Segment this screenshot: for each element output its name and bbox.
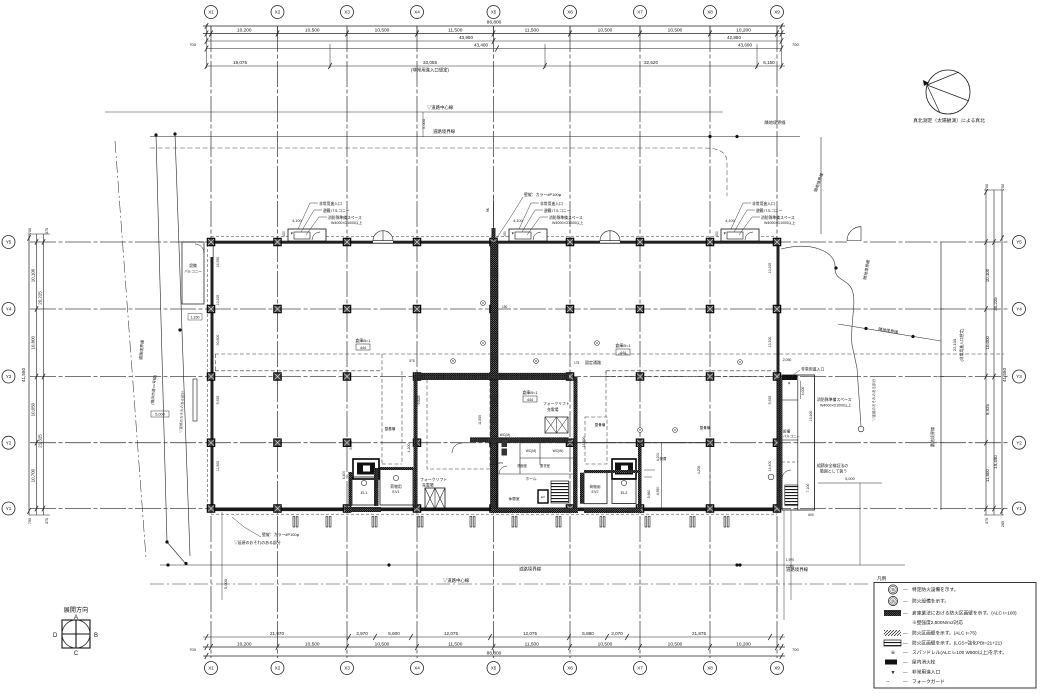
- svg-text:444: 444: [527, 398, 533, 402]
- svg-text:5,660: 5,660: [647, 490, 651, 499]
- road boundary line top: [150, 136, 800, 138]
- svg-text:10,500: 10,500: [375, 28, 390, 34]
- svg-text:充電場: 充電場: [422, 483, 434, 488]
- svg-text:86,800: 86,800: [487, 20, 502, 26]
- svg-text:9,925: 9,925: [985, 404, 990, 416]
- left dimension line 20,225 / 21,325: [43, 234, 45, 515]
- dim line 5000 vertical: [859, 483, 861, 565]
- svg-text:4,000: 4,000: [801, 387, 805, 396]
- svg-text:整基横: 整基横: [385, 426, 396, 431]
- svg-text:41,550: 41,550: [1002, 368, 1007, 382]
- svg-text:荷物用: 荷物用: [390, 484, 402, 489]
- svg-text:5,000: 5,000: [845, 477, 855, 481]
- svg-text:―: ―: [903, 670, 908, 675]
- svg-text:Y1: Y1: [6, 506, 12, 511]
- north compass: [923, 70, 970, 114]
- top dimension line 43,950 / 42,850: [207, 40, 782, 42]
- Y2 wall right segment: [575, 442, 710, 444]
- svg-text:敷地境界線: 敷地境界線: [929, 427, 935, 447]
- bottom bay dimension line: [203, 646, 785, 648]
- svg-text:防火区画壁を示す。(ALC t=75): 防火区画壁を示す。(ALC t=75): [912, 630, 977, 637]
- svg-text:特: 特: [891, 587, 895, 592]
- svg-text:10,100: 10,100: [31, 268, 36, 282]
- svg-text:非常用進入口: 非常用進入口: [752, 201, 775, 206]
- svg-text:5,000: 5,000: [421, 118, 426, 129]
- horizontal grid lines Y1-Y5: [30, 242, 1008, 509]
- svg-text:物置: 物置: [660, 456, 667, 461]
- right bay dimension line: [985, 190, 987, 515]
- svg-text:4,200: 4,200: [407, 444, 411, 453]
- svg-text:19,490: 19,490: [993, 455, 998, 469]
- svg-text:スパンドレル(ALC t=100 W900以上)を示す。: スパンドレル(ALC t=100 W900以上)を示す。: [912, 649, 1007, 656]
- left core hatched walls: [349, 472, 353, 506]
- svg-text:整骨横: 整骨横: [700, 425, 711, 430]
- grid bubbles X1-X9 top: [205, 6, 784, 19]
- svg-text:9,925: 9,925: [768, 396, 772, 405]
- svg-text:700: 700: [28, 518, 32, 524]
- svg-text:12,075: 12,075: [444, 631, 458, 636]
- svg-text:375: 375: [45, 228, 49, 234]
- right core hatched walls: [580, 473, 584, 504]
- svg-text:11,500: 11,500: [525, 28, 540, 34]
- svg-text:Y5: Y5: [1016, 240, 1022, 245]
- svg-text:Y1: Y1: [1016, 506, 1022, 511]
- svg-text:―: ―: [903, 679, 908, 684]
- svg-text:4,100: 4,100: [513, 219, 523, 223]
- svg-text:11,500: 11,500: [216, 461, 220, 471]
- svg-text:―: ―: [903, 587, 908, 592]
- svg-text:X9: X9: [774, 10, 780, 15]
- svg-text:10,500: 10,500: [668, 28, 683, 34]
- balcony leader labels: [298, 203, 327, 235]
- svg-text:32,520: 32,520: [644, 60, 658, 65]
- svg-text:整骨横: 整骨横: [595, 422, 606, 427]
- svg-text:150: 150: [715, 231, 719, 237]
- road center line top: [105, 111, 723, 113]
- central core top wall hatched: [470, 437, 569, 442]
- svg-text:EL2: EL2: [621, 491, 628, 495]
- svg-text:4,200: 4,200: [697, 466, 701, 474]
- fork guard dashed lines around building: [211, 236, 777, 238]
- grid bubbles Y1-Y5 right: [1013, 236, 1026, 516]
- svg-text:10,000: 10,000: [985, 335, 990, 349]
- svg-text:C: C: [74, 651, 79, 657]
- top dimension extension lines: [207, 24, 782, 68]
- svg-text:隣地境界線: 隣地境界線: [765, 119, 787, 126]
- left dimension extension lines: [29, 234, 50, 515]
- interior dim line X7 area: [661, 443, 663, 508]
- svg-text:10,050: 10,050: [31, 402, 36, 416]
- svg-text:10,225: 10,225: [768, 263, 772, 274]
- svg-text:フォークリフト: フォークリフト: [420, 477, 447, 482]
- svg-text:21,325: 21,325: [38, 434, 43, 448]
- central core right wall hatched: [574, 377, 578, 509]
- svg-text:11,500: 11,500: [478, 415, 482, 425]
- columns grid: [207, 238, 780, 512]
- left equipment balcony: [182, 242, 204, 304]
- left cargo EV room: [380, 468, 413, 505]
- svg-text:9,825: 9,825: [417, 396, 421, 405]
- interior door arcs Y2 row: [452, 443, 462, 453]
- svg-text:1,970: 1,970: [786, 558, 794, 562]
- svg-text:11,500: 11,500: [525, 641, 540, 647]
- central core outline: [497, 443, 574, 509]
- svg-text:14,400: 14,400: [768, 461, 772, 472]
- fire partition wall Y3 hatched band: [415, 373, 569, 379]
- svg-text:設備: 設備: [189, 263, 197, 268]
- dashed zone rects center: [585, 417, 607, 464]
- svg-text:41,550: 41,550: [21, 368, 26, 382]
- svg-text:86,800: 86,800: [487, 650, 502, 656]
- svg-text:X5: X5: [491, 10, 497, 15]
- right curved neighbour boundary: [781, 246, 861, 426]
- svg-text:Y4: Y4: [6, 307, 12, 312]
- svg-text:X8: X8: [707, 666, 713, 671]
- svg-text:特定防火設備を示す。: 特定防火設備を示す。: [912, 586, 958, 593]
- svg-text:非常用進入口: 非常用進入口: [912, 669, 940, 676]
- svg-text:▽道路中心線: ▽道路中心線: [443, 577, 470, 584]
- fixed corridor dashed line lower: [215, 370, 382, 372]
- svg-text:700: 700: [189, 42, 196, 47]
- svg-text:凡例: 凡例: [877, 575, 887, 582]
- svg-text:21,970: 21,970: [270, 631, 284, 636]
- svg-text:--: --: [886, 679, 890, 685]
- svg-text:13,200: 13,200: [809, 411, 813, 422]
- forklift charger left: [425, 488, 445, 509]
- svg-text:X2: X2: [275, 666, 281, 671]
- svg-text:消防隊準備スペース: 消防隊準備スペース: [549, 215, 583, 220]
- svg-text:10,200: 10,200: [736, 28, 751, 34]
- svg-text:WC(M): WC(M): [526, 449, 536, 453]
- svg-text:組積安全検証法の: 組積安全検証法の: [817, 463, 848, 468]
- svg-text:Y2: Y2: [1016, 440, 1022, 445]
- svg-text:EL1: EL1: [361, 491, 368, 495]
- svg-text:X8: X8: [707, 10, 713, 15]
- svg-text:700: 700: [792, 647, 799, 652]
- svg-text:575: 575: [409, 359, 415, 363]
- svg-text:―: ―: [903, 631, 908, 636]
- svg-text:375: 375: [45, 518, 49, 524]
- svg-text:洗面室: 洗面室: [517, 463, 528, 468]
- svg-text:X2: X2: [275, 10, 281, 15]
- svg-text:防火区画壁を示す。(LGS+強化PBt=21+21): 防火区画壁を示す。(LGS+強化PBt=21+21): [912, 640, 1002, 647]
- svg-text:150: 150: [502, 305, 508, 309]
- svg-text:13,200: 13,200: [768, 337, 772, 348]
- svg-text:10,225: 10,225: [216, 295, 220, 306]
- right annex rooms: [782, 375, 815, 510]
- central core stairs: [551, 481, 569, 503]
- right cargo EV room: [584, 473, 607, 504]
- svg-text:4,100: 4,100: [292, 219, 302, 223]
- right annex door arc: [782, 470, 791, 479]
- svg-text:X3: X3: [344, 666, 350, 671]
- fixed corridor dashed line upper: [215, 353, 1004, 355]
- right EL room: [612, 479, 636, 504]
- grid bubbles X1-X9 bottom: [205, 662, 784, 675]
- small circled marks interior: [481, 301, 486, 306]
- svg-text:道路境界線: 道路境界線: [433, 128, 456, 135]
- svg-text:42,850: 42,850: [727, 35, 741, 40]
- svg-text:10,500: 10,500: [598, 28, 613, 34]
- svg-text:A: A: [74, 615, 78, 621]
- central core rooms: [519, 443, 521, 474]
- svg-text:非常用進入口: 非常用進入口: [319, 201, 342, 206]
- svg-text:真北測定（太陽観測）による真北: 真北測定（太陽観測）による真北: [913, 117, 985, 124]
- svg-text:X7: X7: [637, 666, 643, 671]
- svg-text:10,100: 10,100: [985, 268, 990, 282]
- svg-text:Y3: Y3: [1016, 374, 1022, 379]
- svg-text:フォークリフト: フォークリフト: [543, 401, 570, 406]
- svg-text:10,500: 10,500: [305, 641, 320, 647]
- svg-text:Y5: Y5: [6, 240, 12, 245]
- right annex top dark segment: [782, 375, 797, 380]
- svg-text:X6: X6: [567, 10, 573, 15]
- svg-text:WC(W): WC(W): [553, 449, 564, 453]
- svg-text:7,100: 7,100: [806, 484, 810, 493]
- svg-text:脱衣室: 脱衣室: [540, 463, 551, 468]
- svg-text:X1: X1: [208, 666, 214, 671]
- svg-text:防火設備を示す。: 防火設備を示す。: [912, 598, 949, 605]
- svg-text:屋内消火栓: 屋内消火栓: [912, 659, 936, 666]
- svg-text:444: 444: [360, 346, 366, 350]
- svg-text:X7: X7: [637, 10, 643, 15]
- svg-text:―: ―: [903, 650, 908, 655]
- svg-text:21,875: 21,875: [692, 631, 706, 636]
- svg-text:避難バルコニー: 避難バルコニー: [323, 208, 350, 213]
- left EL room: [352, 477, 378, 505]
- building bottom wall Y1: [211, 508, 777, 512]
- vertical grid lines X1-X9: [211, 26, 777, 658]
- svg-text:消防隊準備スペース: 消防隊準備スペース: [328, 215, 362, 220]
- site boundary vertical x941: [940, 242, 942, 510]
- svg-text:▽延焼のおそれのある部分: ▽延焼のおそれのある部分: [871, 379, 876, 421]
- neighbour boundary diagonal segment: [838, 324, 941, 341]
- bottom left diagonal ends: [167, 542, 186, 564]
- svg-text:10,500: 10,500: [668, 641, 683, 647]
- svg-text:33,055: 33,055: [423, 60, 437, 65]
- svg-text:20,225: 20,225: [38, 291, 43, 305]
- svg-text:6,150: 6,150: [763, 60, 775, 65]
- neighbour boundary vertical leg x821: [820, 137, 822, 234]
- visitor corridor dashed rect: [427, 377, 490, 469]
- svg-text:12,075: 12,075: [523, 631, 537, 636]
- svg-text:3,070: 3,070: [611, 631, 623, 636]
- left road boundary diagonals: [156, 135, 167, 542]
- svg-text:倉庫業法における防火区画壁を示す。(ALC t=100): 倉庫業法における防火区画壁を示す。(ALC t=100): [912, 610, 1017, 617]
- svg-text:―: ―: [903, 641, 908, 646]
- svg-text:EV1: EV1: [392, 490, 399, 494]
- Y1 wall hatch segments: [345, 507, 381, 512]
- svg-text:防: 防: [891, 599, 895, 604]
- right annex stair: [785, 485, 798, 506]
- svg-text:10,700: 10,700: [31, 468, 36, 482]
- svg-text:避難バルコニー: 避難バルコニー: [756, 208, 783, 213]
- svg-text:4,100: 4,100: [725, 219, 735, 223]
- svg-text:10,200: 10,200: [237, 28, 252, 34]
- svg-text:22,100: 22,100: [952, 338, 957, 351]
- left overall dimension 41,550: [28, 234, 30, 515]
- svg-text:▼: ▼: [787, 382, 790, 386]
- svg-text:43,950: 43,950: [459, 35, 473, 40]
- svg-text:休憩室: 休憩室: [508, 496, 519, 501]
- svg-text:265: 265: [1001, 521, 1005, 527]
- svg-text:W4000×D1000以上: W4000×D1000以上: [820, 403, 852, 408]
- svg-text:700: 700: [985, 184, 989, 190]
- svg-text:壁縦：カラー#P100φ: 壁縦：カラー#P100φ: [524, 192, 562, 197]
- svg-text:W4000×D1000以上: W4000×D1000以上: [331, 220, 363, 225]
- svg-text:▼: ▼: [723, 232, 727, 236]
- svg-text:▽延焼のおそれのある部分: ▽延焼のおそれのある部分: [234, 540, 281, 545]
- svg-text:壁縦：カラー#P100φ: 壁縦：カラー#P100φ: [262, 532, 300, 537]
- svg-text:X4: X4: [414, 666, 420, 671]
- svg-text:11,500: 11,500: [582, 437, 586, 448]
- svg-text:1,150: 1,150: [191, 316, 200, 320]
- svg-text:600: 600: [808, 513, 814, 517]
- svg-text:Y2: Y2: [6, 440, 12, 445]
- svg-text:※壁強度2,500N/m2対応: ※壁強度2,500N/m2対応: [912, 619, 963, 626]
- svg-text:▽道路中心線: ▽道路中心線: [427, 104, 454, 111]
- svg-text:展開方向: 展開方向: [64, 606, 89, 614]
- svg-text:道路境界線: 道路境界線: [519, 566, 542, 573]
- expansion direction symbol: [53, 606, 98, 657]
- svg-text:175: 175: [574, 361, 580, 365]
- svg-text:―: ―: [903, 599, 908, 604]
- svg-text:B: B: [94, 633, 98, 639]
- svg-text:(非常用進入口想定): (非常用進入口想定): [411, 67, 450, 74]
- right EV shaft: [612, 459, 636, 479]
- top wall door arcs: [373, 231, 393, 241]
- left EV shaft: [353, 459, 379, 479]
- bottom road boundary line: [160, 564, 905, 566]
- svg-text:444: 444: [620, 351, 626, 355]
- svg-text:5,000: 5,000: [155, 413, 165, 417]
- central core toilet boxes: [502, 440, 508, 447]
- legend rows: [888, 585, 958, 594]
- svg-text:43,600: 43,600: [738, 43, 752, 48]
- central core small EV: [538, 490, 548, 503]
- bottom road center line: [150, 583, 870, 585]
- svg-text:消防隊準備スペース: 消防隊準備スペース: [817, 397, 852, 402]
- svg-text:43,400: 43,400: [474, 43, 488, 48]
- svg-text:5,600: 5,600: [388, 631, 400, 636]
- svg-text:(非常用進入口想定): (非常用進入口想定): [959, 328, 964, 362]
- svg-text:倉庫B=1: 倉庫B=1: [522, 389, 538, 395]
- svg-text:10,200: 10,200: [237, 641, 252, 647]
- svg-text:5,880: 5,880: [582, 631, 594, 636]
- svg-text:―: ―: [903, 660, 908, 665]
- svg-text:6,400: 6,400: [342, 471, 346, 480]
- legend box: [874, 583, 1036, 689]
- building top wall Y5: [211, 241, 777, 244]
- right overall dimension 41,550: [1001, 190, 1003, 515]
- svg-text:範囲として扱う: 範囲として扱う: [820, 469, 847, 474]
- grid bubbles Y1-Y5 left: [2, 236, 15, 516]
- svg-text:W4000×D1000以上: W4000×D1000以上: [764, 220, 796, 225]
- svg-text:W4000×D1000以上: W4000×D1000以上: [552, 220, 584, 225]
- svg-text:荷物用: 荷物用: [589, 484, 600, 489]
- svg-text:700: 700: [792, 42, 799, 47]
- bottom sub dimension line: [203, 636, 785, 638]
- svg-text:倉庫B=1: 倉庫B=1: [615, 342, 631, 348]
- svg-text:4,550: 4,550: [656, 487, 660, 496]
- svg-text:EV: EV: [541, 495, 545, 499]
- svg-text:3,970: 3,970: [356, 631, 368, 636]
- top overall dimension 86,800: [203, 25, 785, 27]
- svg-text:10,200: 10,200: [736, 641, 751, 647]
- storage label boxes: [355, 337, 371, 350]
- svg-text:設備: 設備: [783, 429, 791, 434]
- svg-text:バルコニー: バルコニー: [184, 270, 202, 274]
- building left wall X1: [211, 241, 214, 511]
- right dimension extension lines: [984, 190, 1004, 515]
- fire partition wall X5 hatched: [491, 242, 499, 511]
- svg-text:非常用進入口: 非常用進入口: [801, 367, 824, 372]
- svg-text:▼: ▼: [290, 232, 294, 236]
- right dimension line 20,225 / 21,325: [993, 190, 995, 515]
- svg-text:EV2: EV2: [592, 490, 599, 494]
- svg-text:10,500: 10,500: [305, 28, 320, 34]
- svg-text:ホール: ホール: [525, 476, 536, 481]
- svg-text:375: 375: [985, 518, 989, 524]
- svg-text:―: ―: [903, 611, 908, 616]
- svg-text:X6: X6: [567, 666, 573, 671]
- svg-text:700: 700: [189, 647, 196, 652]
- site dashed line top: [150, 148, 727, 196]
- svg-text:X5: X5: [491, 666, 497, 671]
- svg-text:30,800: 30,800: [216, 335, 220, 346]
- svg-text:30,225: 30,225: [993, 297, 998, 311]
- svg-text:X9: X9: [774, 666, 780, 671]
- svg-text:700: 700: [1001, 184, 1005, 190]
- svg-text:11,500: 11,500: [448, 28, 463, 34]
- svg-text:11,500: 11,500: [448, 641, 463, 647]
- svg-text:非常用進入口: 非常用進入口: [540, 201, 563, 206]
- svg-text:Y4: Y4: [1016, 307, 1022, 312]
- svg-text:19,075: 19,075: [233, 60, 247, 65]
- svg-text:X3: X3: [344, 10, 350, 15]
- bottom wall window ticks: [293, 517, 729, 528]
- svg-text:▼: ▼: [511, 232, 515, 236]
- svg-text:フォークガード: フォークガード: [912, 678, 945, 685]
- svg-text:EPS: EPS: [497, 461, 503, 465]
- svg-text:X4: X4: [414, 10, 420, 15]
- svg-text:9K: 9K: [486, 207, 490, 212]
- svg-text:バルコニー: バルコニー: [783, 435, 800, 439]
- balcony escape units top wall: [288, 229, 326, 241]
- right annex guide lines below: [783, 510, 785, 620]
- svg-text:固定通路: 固定通路: [585, 359, 601, 365]
- left lower ledge: [193, 379, 197, 421]
- top bay dimension line: [203, 33, 785, 35]
- top dimension line 43,400 / 43,600: [207, 48, 782, 50]
- svg-text:9,925: 9,925: [216, 396, 220, 405]
- svg-text:避難バルコニー: 避難バルコニー: [544, 208, 571, 213]
- svg-text:WC(M): WC(M): [500, 433, 510, 437]
- svg-text:Y3: Y3: [6, 374, 12, 379]
- svg-text:2,050: 2,050: [786, 565, 794, 569]
- svg-text:▼: ▼: [891, 670, 896, 676]
- svg-text:5,000: 5,000: [223, 578, 228, 589]
- top dimension line 19,075 / 33,055 / 32,520 / 6,150: [207, 65, 786, 67]
- svg-text:消防隊準備スペース: 消防隊準備スペース: [761, 215, 795, 220]
- svg-text:2,050: 2,050: [783, 358, 792, 362]
- svg-text:10,500: 10,500: [598, 641, 613, 647]
- svg-text:充電場: 充電場: [547, 407, 559, 412]
- left bay dimension line: [36, 234, 38, 515]
- svg-text:D: D: [53, 633, 58, 639]
- svg-text:150: 150: [282, 231, 286, 237]
- svg-text:700: 700: [28, 228, 32, 234]
